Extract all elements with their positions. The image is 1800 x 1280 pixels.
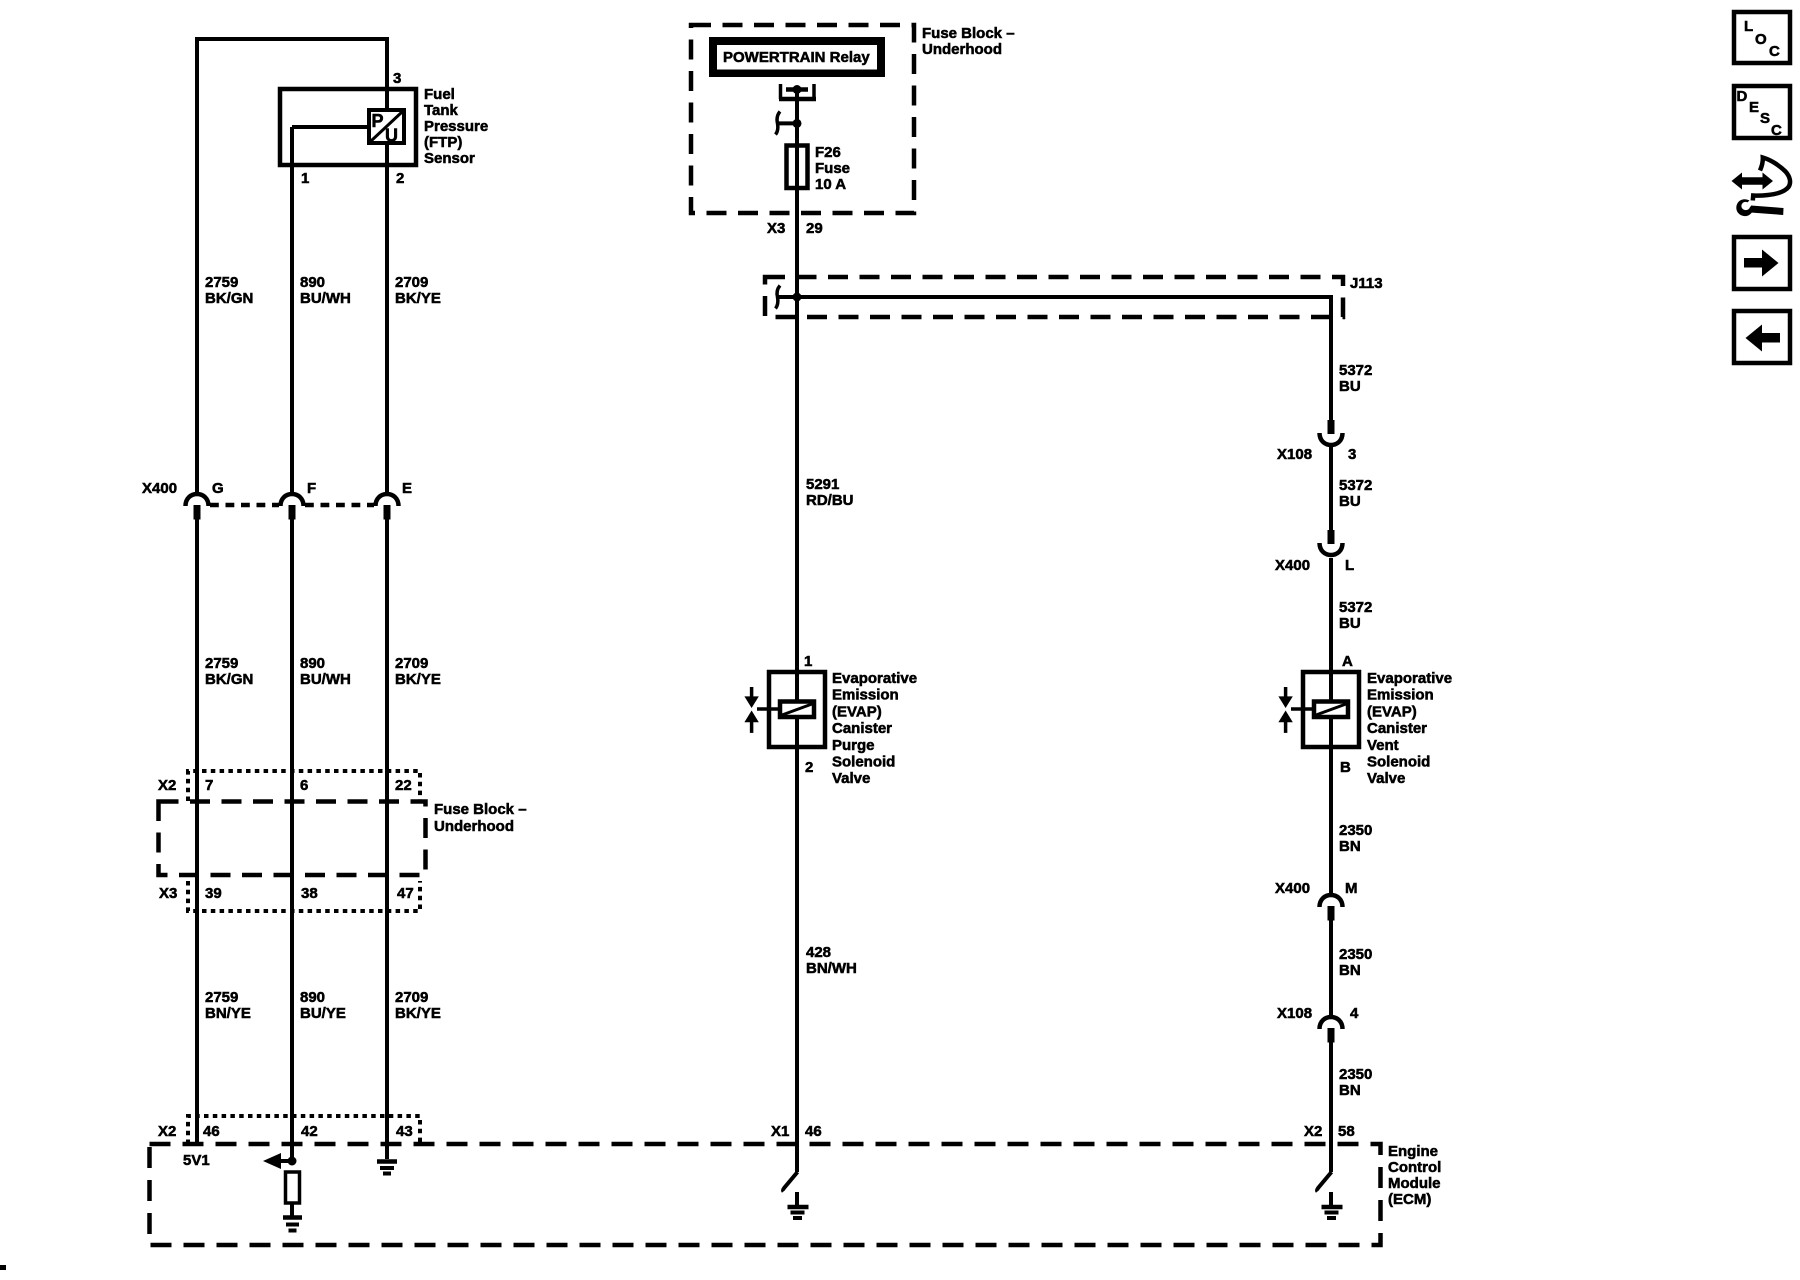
svg-text:2: 2 [805, 759, 813, 776]
svg-text:43: 43 [396, 1123, 413, 1140]
svg-text:58: 58 [1338, 1123, 1355, 1140]
svg-text:2350: 2350 [1339, 822, 1372, 839]
svg-text:BU/YE: BU/YE [300, 1005, 346, 1022]
svg-text:BK/YE: BK/YE [395, 671, 441, 688]
svg-text:Sensor: Sensor [424, 150, 475, 167]
svg-text:C: C [1771, 122, 1782, 139]
svg-text:Module: Module [1388, 1175, 1441, 1192]
svg-text:M: M [1345, 880, 1358, 897]
svg-text:Purge: Purge [832, 737, 875, 754]
svg-text:47: 47 [397, 885, 414, 902]
svg-text:1: 1 [804, 653, 812, 670]
svg-text:(EVAP): (EVAP) [1367, 703, 1417, 720]
svg-text:5372: 5372 [1339, 477, 1372, 494]
svg-text:BN/YE: BN/YE [205, 1005, 251, 1022]
svg-text:2759: 2759 [205, 655, 238, 672]
svg-text:Fuel: Fuel [424, 86, 455, 103]
svg-text:2709: 2709 [395, 274, 428, 291]
svg-text:BU: BU [1339, 615, 1361, 632]
svg-text:Fuse: Fuse [815, 160, 850, 177]
svg-text:D: D [1737, 88, 1748, 105]
svg-text:22: 22 [395, 777, 412, 794]
svg-text:A: A [1342, 653, 1353, 670]
svg-text:Emission: Emission [1367, 687, 1434, 704]
svg-text:Tank: Tank [424, 102, 459, 119]
svg-text:(EVAP): (EVAP) [832, 703, 882, 720]
svg-text:890: 890 [300, 989, 325, 1006]
svg-text:890: 890 [300, 274, 325, 291]
svg-text:39: 39 [205, 885, 222, 902]
svg-text:BK/YE: BK/YE [395, 290, 441, 307]
svg-text:L: L [1345, 557, 1354, 574]
svg-text:Pressure: Pressure [424, 118, 488, 135]
svg-text:E: E [1749, 99, 1759, 116]
svg-text:42: 42 [301, 1123, 318, 1140]
svg-text:6: 6 [300, 777, 308, 794]
svg-text:U: U [385, 126, 398, 146]
svg-text:C: C [1769, 43, 1780, 60]
svg-text:5372: 5372 [1339, 599, 1372, 616]
svg-text:Canister: Canister [832, 720, 892, 737]
svg-text:890: 890 [300, 655, 325, 672]
svg-text:Solenoid: Solenoid [832, 754, 895, 771]
svg-text:X400: X400 [1275, 880, 1310, 897]
svg-text:X1: X1 [771, 1123, 789, 1140]
svg-text:3: 3 [1348, 446, 1356, 463]
svg-text:(ECM): (ECM) [1388, 1191, 1431, 1208]
svg-text:X108: X108 [1277, 1005, 1312, 1022]
svg-text:2350: 2350 [1339, 1066, 1372, 1083]
svg-text:X2: X2 [158, 1123, 176, 1140]
svg-text:F26: F26 [815, 144, 841, 161]
svg-text:4: 4 [1350, 1005, 1359, 1022]
svg-text:1: 1 [301, 170, 309, 187]
svg-text:Vent: Vent [1367, 737, 1399, 754]
svg-text:BN: BN [1339, 838, 1361, 855]
svg-text:E: E [402, 480, 412, 497]
svg-text:2709: 2709 [395, 655, 428, 672]
svg-text:428: 428 [806, 944, 831, 961]
svg-text:2: 2 [396, 170, 404, 187]
svg-text:P: P [372, 111, 384, 131]
svg-text:46: 46 [805, 1123, 822, 1140]
svg-text:46: 46 [203, 1123, 220, 1140]
svg-text:Valve: Valve [832, 770, 870, 787]
svg-text:Evaporative: Evaporative [1367, 670, 1452, 687]
svg-text:X3: X3 [767, 220, 785, 237]
svg-text:5291: 5291 [806, 476, 839, 493]
svg-text:L: L [1744, 18, 1753, 35]
svg-text:BU/WH: BU/WH [300, 671, 351, 688]
svg-text:2350: 2350 [1339, 946, 1372, 963]
svg-text:BN: BN [1339, 962, 1361, 979]
svg-text:Engine: Engine [1388, 1143, 1438, 1160]
svg-text:29: 29 [806, 220, 823, 237]
svg-text:X400: X400 [1275, 557, 1310, 574]
svg-text:X3: X3 [159, 885, 177, 902]
svg-text:BU: BU [1339, 493, 1361, 510]
svg-text:5V1: 5V1 [183, 1152, 210, 1169]
svg-text:Underhood: Underhood [922, 41, 1002, 58]
svg-text:5372: 5372 [1339, 362, 1372, 379]
svg-text:3: 3 [393, 70, 401, 87]
svg-text:X2: X2 [158, 777, 176, 794]
svg-text:Underhood: Underhood [434, 818, 514, 835]
svg-text:X108: X108 [1277, 446, 1312, 463]
svg-text:Valve: Valve [1367, 770, 1405, 787]
svg-text:B: B [1340, 759, 1351, 776]
svg-text:X2: X2 [1304, 1123, 1322, 1140]
svg-text:Emission: Emission [832, 687, 899, 704]
svg-text:Control: Control [1388, 1159, 1441, 1176]
svg-text:S: S [1760, 110, 1770, 127]
svg-text:BK/GN: BK/GN [205, 290, 253, 307]
svg-text:2759: 2759 [205, 989, 238, 1006]
svg-text:RD/BU: RD/BU [806, 492, 854, 509]
svg-text:POWERTRAIN Relay: POWERTRAIN Relay [723, 49, 870, 66]
svg-text:Fuse Block –: Fuse Block – [434, 801, 527, 818]
svg-text:10 A: 10 A [815, 176, 846, 193]
svg-text:(FTP): (FTP) [424, 134, 462, 151]
svg-text:2709: 2709 [395, 989, 428, 1006]
svg-text:J113: J113 [1350, 275, 1383, 292]
svg-text:Evaporative: Evaporative [832, 670, 917, 687]
svg-text:G: G [212, 480, 224, 497]
svg-text:BN: BN [1339, 1082, 1361, 1099]
svg-text:38: 38 [301, 885, 318, 902]
svg-text:BU: BU [1339, 378, 1361, 395]
svg-text:Canister: Canister [1367, 720, 1427, 737]
svg-text:BK/GN: BK/GN [205, 671, 253, 688]
svg-text:BU/WH: BU/WH [300, 290, 351, 307]
svg-text:F: F [307, 480, 316, 497]
svg-text:X400: X400 [142, 480, 177, 497]
svg-text:7: 7 [205, 777, 213, 794]
svg-text:Solenoid: Solenoid [1367, 754, 1430, 771]
svg-text:BN/WH: BN/WH [806, 960, 857, 977]
svg-text:BK/YE: BK/YE [395, 1005, 441, 1022]
svg-text:O: O [1755, 31, 1767, 48]
svg-text:Fuse Block –: Fuse Block – [922, 25, 1015, 42]
svg-text:2759: 2759 [205, 274, 238, 291]
